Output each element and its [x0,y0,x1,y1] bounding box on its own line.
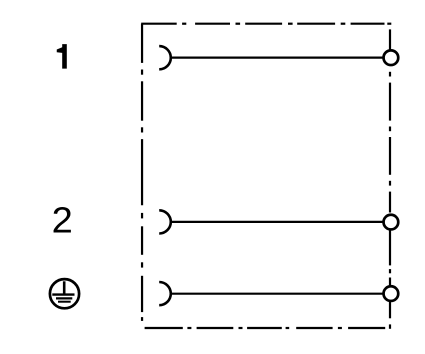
socket contact PE [159,282,171,305]
socket contact pin 2 [159,210,171,233]
enclosure boundary right (dash-dot) [389,29,391,328]
wire PE [171,293,384,295]
terminal circle pin 2 [384,215,399,230]
terminal circle PE [384,286,399,301]
pin label 1 [57,44,67,69]
enclosure boundary top (dash-dot) [141,23,391,25]
protective earth symbol PE [50,279,79,308]
terminal circle pin 1 [384,50,399,65]
socket contact pin 1 [159,46,171,69]
svg-text:2: 2 [52,201,73,241]
wire pin 1 [171,56,384,58]
enclosure boundary bottom (dash-dot) [145,327,386,329]
wire pin 2 [171,221,384,223]
enclosure boundary left (dash-dot) [141,24,143,321]
